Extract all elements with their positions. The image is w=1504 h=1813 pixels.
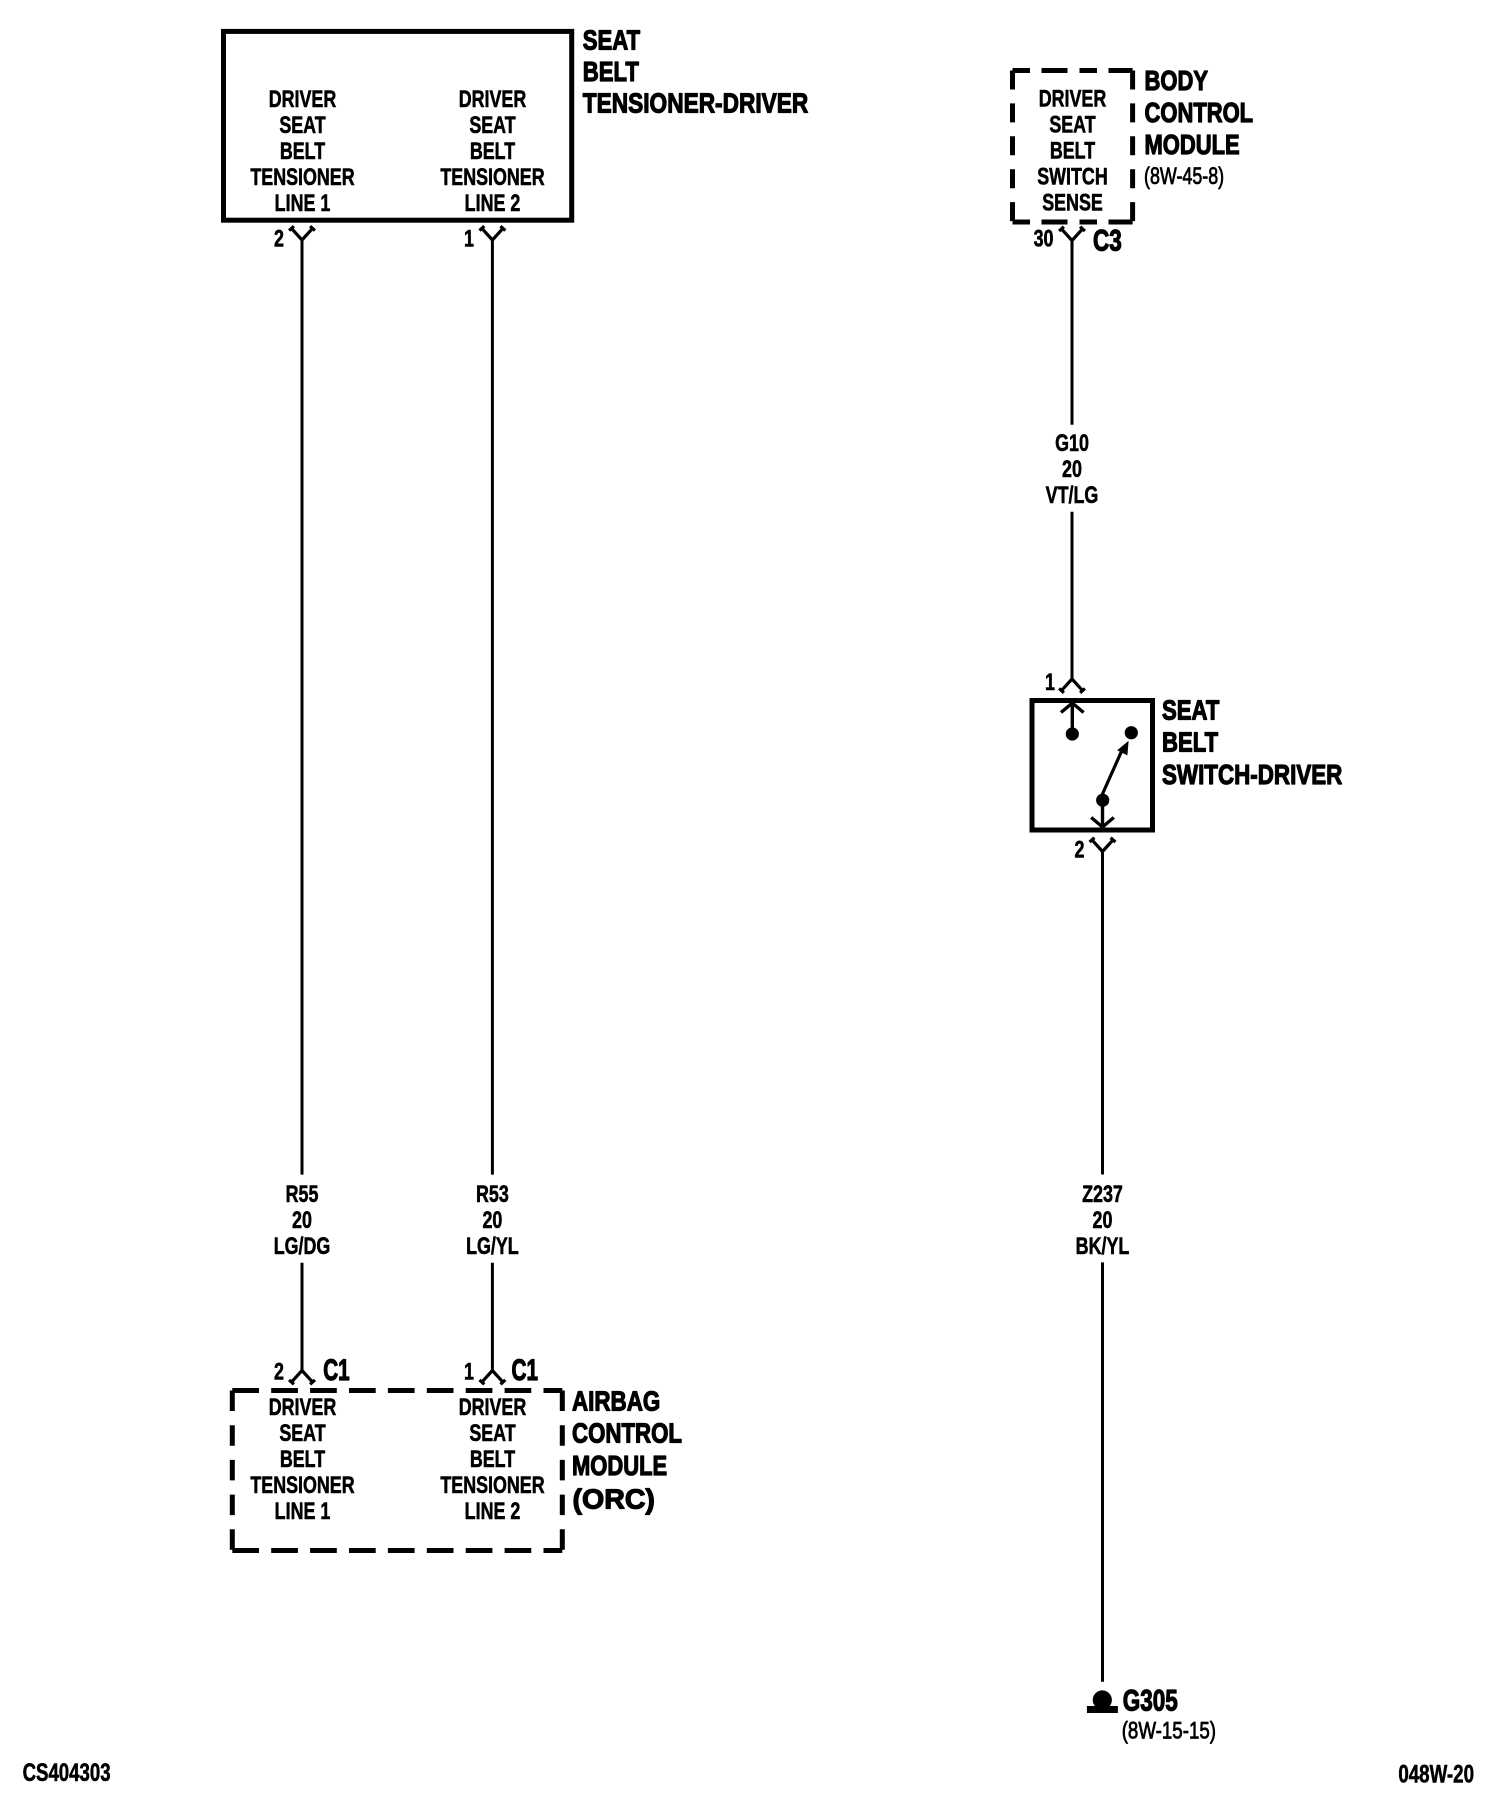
svg-text:(8W-15-15): (8W-15-15) (1122, 1717, 1216, 1744)
wire G10 upper segment (1071, 240, 1074, 425)
connector half Y at switch pin 2 (1090, 838, 1116, 852)
dashed box: AIRBAG CONTROL MODULE (ORC) (232, 1391, 562, 1551)
title: SEAT BELT TENSIONER-DRIVER (583, 25, 808, 119)
switch contact dot 3 (bottom, common) (1096, 794, 1109, 807)
label: driver seat belt tensioner line 2 (ORC column 2) (440, 1393, 545, 1524)
svg-text:SEAT: SEAT (469, 111, 515, 138)
svg-text:Z237: Z237 (1082, 1180, 1123, 1207)
svg-text:BK/YL: BK/YL (1076, 1232, 1130, 1259)
svg-text:C3: C3 (1093, 223, 1122, 257)
svg-text:TENSIONER: TENSIONER (440, 163, 545, 190)
svg-text:048W-20: 048W-20 (1398, 1760, 1474, 1788)
box: SEAT BELT SWITCH-DRIVER component (1032, 701, 1153, 831)
svg-text:LINE 2: LINE 2 (465, 189, 521, 216)
svg-text:BODY: BODY (1145, 66, 1209, 97)
svg-text:G10: G10 (1055, 429, 1089, 456)
svg-text:MODULE: MODULE (1145, 130, 1240, 161)
wire G10 lower segment (1071, 512, 1074, 679)
svg-text:20: 20 (1093, 1206, 1113, 1233)
svg-text:20: 20 (1062, 455, 1082, 482)
switch pin 2 internal arrow (exiting bottom) (1091, 806, 1114, 827)
svg-text:SEAT: SEAT (1162, 695, 1220, 726)
svg-text:G305: G305 (1123, 1684, 1178, 1718)
label: driver seat belt switch sense (inside BCM box) (1037, 85, 1107, 216)
wire R53 upper segment (491, 239, 494, 1175)
wire label: R53 20 LG/YL (466, 1180, 519, 1259)
connector half Y at pin 2 (289, 226, 315, 240)
svg-text:AIRBAG: AIRBAG (572, 1386, 660, 1417)
svg-text:(8W-45-8): (8W-45-8) (1144, 164, 1224, 190)
title: SEAT BELT SWITCH-DRIVER (1162, 695, 1342, 791)
svg-text:LINE 1: LINE 1 (275, 1497, 331, 1524)
svg-text:1: 1 (1045, 668, 1055, 695)
svg-text:20: 20 (292, 1206, 312, 1233)
svg-text:TENSIONER: TENSIONER (250, 163, 355, 190)
svg-text:LINE 2: LINE 2 (465, 1497, 521, 1524)
svg-text:C1: C1 (323, 1355, 349, 1388)
svg-text:MODULE: MODULE (572, 1450, 667, 1481)
switch pin 1 internal arrow (entering top) (1061, 703, 1084, 729)
connector half lambda at switch pin 1 (1059, 679, 1085, 693)
svg-text:SEAT: SEAT (279, 111, 325, 138)
svg-text:SENSE: SENSE (1042, 189, 1103, 216)
svg-text:DRIVER: DRIVER (269, 1393, 337, 1420)
wire Z237 lower segment (1101, 1262, 1104, 1681)
svg-text:SWITCH: SWITCH (1037, 163, 1107, 190)
svg-text:DRIVER: DRIVER (459, 1393, 527, 1420)
switch blade arrow (from common dot toward dot 2) (1102, 741, 1129, 796)
svg-text:SWITCH-DRIVER: SWITCH-DRIVER (1162, 760, 1342, 791)
svg-text:DRIVER: DRIVER (459, 85, 527, 112)
wire R55 upper segment (301, 239, 304, 1175)
wire label: Z237 20 BK/YL (1076, 1180, 1130, 1259)
label: driver seat belt tensioner line 1 (inside box, column 1) (250, 85, 355, 216)
title: BODY CONTROL MODULE (8W-45-8) (1144, 66, 1253, 190)
svg-text:LG/YL: LG/YL (466, 1232, 519, 1259)
svg-text:(ORC): (ORC) (573, 1483, 655, 1515)
svg-text:TENSIONER: TENSIONER (440, 1471, 545, 1498)
svg-text:SEAT: SEAT (279, 1419, 325, 1446)
svg-text:1: 1 (464, 1358, 474, 1385)
svg-text:C1: C1 (512, 1355, 538, 1388)
svg-text:BELT: BELT (280, 137, 325, 164)
dashed box: BODY CONTROL MODULE (driver seat belt switch sense) (1013, 71, 1133, 223)
switch contact dot 1 (top left) (1066, 727, 1079, 740)
svg-text:BELT: BELT (583, 57, 640, 88)
wire R53 lower segment (491, 1263, 494, 1371)
svg-text:TENSIONER-DRIVER: TENSIONER-DRIVER (583, 88, 808, 119)
connector half lambda at ORC pin 2 (289, 1371, 315, 1385)
svg-text:LG/DG: LG/DG (274, 1232, 331, 1259)
svg-text:BELT: BELT (470, 1445, 515, 1472)
svg-text:TENSIONER: TENSIONER (250, 1471, 355, 1498)
connector half Y at pin 1 (480, 226, 506, 240)
svg-text:CS404303: CS404303 (23, 1759, 111, 1787)
connector half lambda at ORC pin 1 (480, 1371, 506, 1385)
box: SEAT BELT TENSIONER-DRIVER component (224, 31, 572, 220)
svg-text:SEAT: SEAT (469, 1419, 515, 1446)
svg-text:2: 2 (274, 225, 284, 252)
switch contact dot 2 (top right) (1125, 726, 1138, 739)
svg-text:CONTROL: CONTROL (1145, 98, 1254, 129)
wire R55 lower segment (301, 1263, 304, 1371)
svg-text:DRIVER: DRIVER (269, 85, 337, 112)
label: driver seat belt tensioner line 2 (inside box, column 2) (440, 85, 545, 216)
connector half Y at BCM pin 30 (1059, 227, 1085, 241)
svg-text:BELT: BELT (280, 1445, 325, 1472)
wire Z237 upper segment (1101, 851, 1104, 1175)
svg-text:20: 20 (482, 1206, 502, 1233)
ground symbol G305 (1087, 1690, 1118, 1713)
wire label: R55 20 LG/DG (274, 1180, 331, 1259)
svg-text:VT/LG: VT/LG (1046, 481, 1099, 508)
svg-text:CONTROL: CONTROL (572, 1418, 682, 1449)
svg-text:2: 2 (274, 1358, 284, 1385)
title: AIRBAG CONTROL MODULE (ORC) (572, 1386, 682, 1514)
svg-text:SEAT: SEAT (1049, 111, 1095, 138)
label: driver seat belt tensioner line 1 (ORC column 1) (250, 1393, 355, 1524)
svg-text:DRIVER: DRIVER (1039, 85, 1107, 112)
svg-text:30: 30 (1034, 225, 1054, 252)
svg-text:R53: R53 (476, 1180, 509, 1207)
wire label: G10 20 VT/LG (1046, 429, 1099, 508)
svg-text:BELT: BELT (1162, 727, 1219, 758)
svg-text:2: 2 (1075, 836, 1085, 863)
svg-text:LINE 1: LINE 1 (275, 189, 331, 216)
svg-text:1: 1 (464, 225, 474, 252)
svg-text:SEAT: SEAT (583, 25, 641, 56)
svg-text:BELT: BELT (470, 137, 515, 164)
svg-text:BELT: BELT (1050, 137, 1095, 164)
svg-text:R55: R55 (286, 1180, 319, 1207)
